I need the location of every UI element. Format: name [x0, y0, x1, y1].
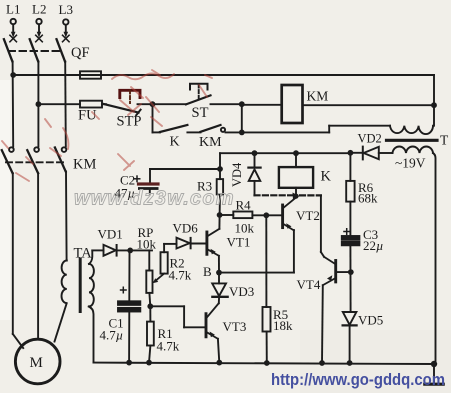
svg-text:TA: TA	[74, 246, 93, 262]
svg-text:STP: STP	[117, 114, 142, 130]
svg-text:4.7µ: 4.7µ	[100, 328, 124, 343]
svg-text:L2: L2	[32, 2, 46, 17]
svg-text:KM: KM	[307, 89, 329, 104]
svg-text:VT2: VT2	[296, 208, 320, 223]
svg-text:VD6: VD6	[173, 221, 199, 236]
svg-text:KM: KM	[199, 135, 222, 150]
svg-text:VD1: VD1	[98, 227, 123, 242]
svg-text:4.7k: 4.7k	[157, 339, 180, 354]
svg-text:K: K	[321, 169, 332, 185]
svg-text:http://www.go-gddq.com: http://www.go-gddq.com	[271, 370, 445, 389]
svg-text:22µ: 22µ	[363, 238, 384, 253]
svg-text:18k: 18k	[273, 318, 293, 333]
svg-text:VT3: VT3	[223, 319, 247, 334]
svg-text:R4: R4	[236, 198, 252, 213]
svg-text:K: K	[170, 135, 180, 150]
svg-text:ST: ST	[192, 105, 209, 121]
svg-text:M: M	[30, 355, 43, 371]
svg-text:B: B	[203, 264, 212, 279]
svg-text:QF: QF	[71, 45, 90, 61]
svg-text:VT4: VT4	[297, 277, 321, 292]
svg-text:68k: 68k	[358, 191, 378, 206]
svg-text:T: T	[440, 133, 449, 148]
svg-text:~19V: ~19V	[395, 156, 426, 171]
svg-text:VD5: VD5	[358, 313, 383, 328]
svg-text:VD4: VD4	[230, 162, 244, 187]
svg-text:4.7k: 4.7k	[169, 268, 192, 283]
svg-text:VD3: VD3	[229, 284, 254, 299]
svg-text:L1: L1	[6, 2, 20, 17]
svg-text:10k: 10k	[137, 237, 157, 252]
svg-text:L3: L3	[59, 2, 73, 17]
svg-text:10k: 10k	[235, 221, 255, 236]
svg-text:VD2: VD2	[358, 132, 382, 146]
svg-text:www.dz3w.com: www.dz3w.com	[74, 188, 235, 210]
svg-text:KM: KM	[73, 157, 96, 173]
svg-text:VT1: VT1	[227, 235, 251, 250]
